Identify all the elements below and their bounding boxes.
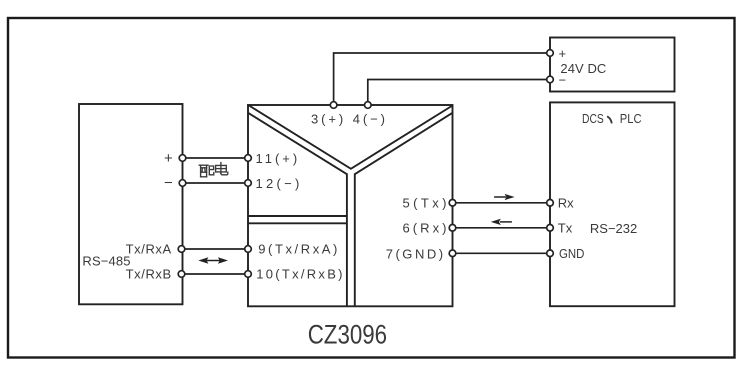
svg-text:CZ3096: CZ3096 [308, 320, 387, 350]
svg-text:−: − [559, 73, 567, 88]
left box Tx/RxA terminal node [178, 246, 185, 253]
char 配 left radical 酉 [199, 164, 208, 166]
svg-text:Rx: Rx [558, 196, 574, 211]
label 配电 (power distribution), drawn strokes [199, 163, 228, 177]
DCS/PLC device box (right) [550, 102, 675, 306]
isolation barrier Y divider: inner V [249, 106, 453, 169]
terminal 6 node [449, 225, 456, 232]
svg-text:+: + [559, 46, 567, 61]
terminal 12 node [245, 180, 252, 187]
terminal 11 node [245, 155, 252, 162]
wire terminal 5 to Rx [453, 202, 551, 204]
wire terminal 4 to -24V [368, 80, 550, 106]
svg-text:Tx/RxB: Tx/RxB [126, 267, 172, 282]
svg-text:DCS: DCS [582, 111, 604, 126]
left box - terminal node [179, 180, 186, 187]
svg-text:+: + [164, 150, 173, 167]
RS-485 device box (left) [79, 104, 183, 304]
svg-text:RS−485: RS−485 [82, 254, 130, 269]
ideographic comma in DCS、PLC [608, 117, 612, 123]
svg-text:24V DC: 24V DC [560, 61, 606, 76]
wire Tx/RxB to terminal 10 [182, 273, 249, 275]
isolator U1 CZ3096 outer box [248, 105, 453, 306]
wire + to terminal 11 [183, 157, 249, 159]
divider between power section and RS-485 section (lower line) [248, 222, 347, 224]
left box + terminal node [179, 155, 186, 162]
svg-text:PLC: PLC [620, 111, 642, 126]
arrow data flow Tx to Rx (leftward) [491, 219, 512, 225]
svg-text:−: − [164, 175, 173, 192]
24V DC power supply box [550, 38, 675, 92]
terminal 4 node [365, 102, 372, 109]
char 电 [220, 163, 222, 174]
wire - to terminal 12 [183, 182, 249, 184]
terminal 5 node [449, 200, 456, 207]
wire terminal 6 to Tx [453, 227, 551, 229]
arrow bidirectional RS-485 [198, 257, 228, 263]
24V + terminal node [547, 50, 554, 57]
wire terminal 3 to +24V [334, 53, 550, 105]
terminal 10 node [245, 271, 252, 278]
terminal 9 node [245, 246, 252, 253]
GND terminal node [547, 250, 554, 257]
terminal 3 node [330, 102, 337, 109]
svg-text:Tx/RxA: Tx/RxA [126, 241, 172, 256]
Rx terminal node [547, 200, 554, 207]
left box Tx/RxB terminal node [178, 271, 185, 278]
wire Tx/RxA to terminal 9 [182, 248, 249, 250]
divider between power section and RS-485 section (upper line) [248, 215, 347, 217]
terminal 7 node [449, 250, 456, 257]
arrow data flow Tx to Rx (rightward) [494, 194, 515, 200]
svg-text:Tx: Tx [558, 221, 573, 236]
wire terminal 7 to GND [453, 252, 551, 254]
svg-text:3(+) 4(−): 3(+) 4(−) [311, 111, 385, 126]
isolation barrier: right outer diagonal + stem right line [355, 113, 453, 306]
24V - terminal node [547, 76, 554, 83]
svg-text:9(Tx/RxA): 9(Tx/RxA) [258, 242, 337, 257]
Tx terminal node [547, 225, 554, 232]
char 配 right part 己 [209, 166, 213, 170]
isolation barrier: left outer diagonal + stem left line [248, 113, 347, 306]
svg-text:GND: GND [559, 247, 584, 261]
svg-text:RS−232: RS−232 [590, 221, 637, 236]
